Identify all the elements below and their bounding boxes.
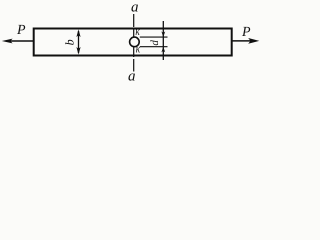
svg-text:a: a [131, 0, 139, 16]
dimension b line [76, 29, 80, 54]
dimension d line with outside arrows [161, 21, 165, 60]
svg-text:d: d [149, 40, 161, 46]
dimension d extension line bottom [140, 46, 168, 48]
svg-text:P: P [241, 25, 251, 40]
svg-text:к: к [135, 24, 140, 38]
svg-text:a: a [128, 68, 136, 84]
force arrow P right [232, 38, 260, 44]
force arrow P left [2, 39, 34, 44]
hole circle [130, 37, 140, 47]
svg-text:b: b [63, 39, 77, 45]
section line a-a [133, 14, 135, 72]
bar outline [34, 29, 232, 56]
svg-text:к: к [136, 42, 141, 56]
svg-text:P: P [16, 23, 26, 38]
dimension d extension line top [140, 36, 168, 38]
